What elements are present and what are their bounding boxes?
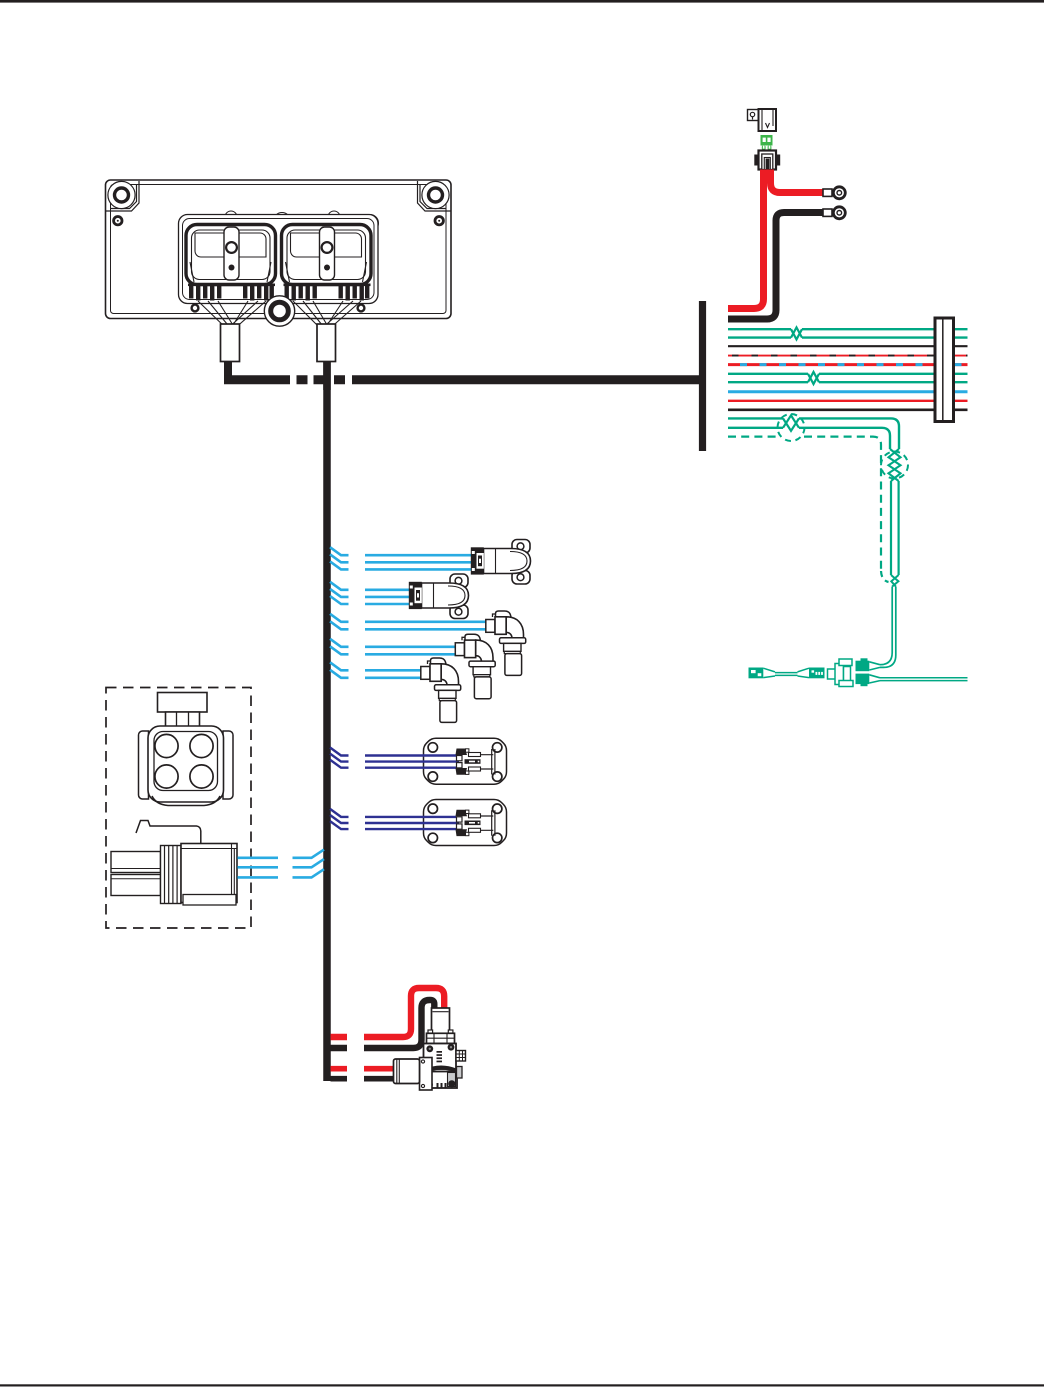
drain wire tail curve	[881, 571, 889, 582]
bullet connector B	[809, 668, 825, 679]
dashed shield circle at vertical twist	[881, 452, 908, 479]
ring terminal (negative)	[823, 207, 845, 219]
teal wire A (shift/trim pair upper)	[728, 418, 899, 449]
4-pin connector face: side wings	[139, 731, 234, 799]
twisted pair vertical run	[891, 481, 899, 575]
wire bundle to sleeve 2	[293, 301, 361, 330]
side-view plug: lock lever	[136, 821, 201, 845]
teal dashed drain wire	[728, 437, 881, 571]
crank position sensor S4 (elbow)	[455, 634, 495, 698]
harness wire 3 (black)	[728, 345, 968, 347]
4-pin connector face: latch tab	[158, 693, 208, 727]
4-pin connector sockets	[155, 734, 213, 788]
fuel pump module: lower housing	[424, 1072, 458, 1089]
teal wire B (pair lower)	[728, 428, 890, 449]
pump sender red wire	[331, 1066, 397, 1072]
block bottom screw right	[358, 305, 365, 312]
accessory harness wires (light blue x3)	[238, 850, 325, 878]
MAP sensor S2	[409, 574, 469, 619]
twisted pair symbol wires A-B	[783, 415, 799, 430]
harness wire 8 (light blue)	[728, 390, 968, 393]
ECM module U1 outline	[106, 180, 452, 319]
harness wire 1 (teal)	[728, 328, 968, 330]
fuse holder lower half	[759, 151, 777, 170]
fuel pump red feed wire	[331, 988, 445, 1037]
battery positive branch to ring	[771, 170, 825, 193]
fuel pump black return wire	[331, 1000, 435, 1048]
injector wires group A (navy x3)	[330, 748, 349, 768]
small screw left	[114, 217, 122, 225]
plate1 center connector	[456, 749, 495, 775]
ECM corner bracket top-right	[418, 181, 451, 211]
harness wire 7 (teal)	[728, 381, 968, 383]
ECM connector block housing	[179, 211, 379, 304]
injector mounting plate 1	[424, 738, 507, 784]
battery negative wire (black)	[728, 213, 824, 320]
jumper lead A to B	[763, 668, 809, 677]
sensor wires group 2 (light blue x3)	[330, 582, 411, 604]
twisted lead from E to right	[880, 678, 968, 681]
ring terminal (positive)	[823, 187, 845, 199]
bulkhead connector P1	[935, 318, 954, 422]
J1 pin row	[188, 284, 275, 301]
plate1 injector leads inside	[365, 756, 459, 768]
fuse holder upper half	[748, 109, 777, 131]
fuel pump module: sender socket	[420, 1058, 433, 1091]
MAP sensor S1	[471, 540, 531, 585]
crank position sensor S5 (elbow)	[421, 658, 461, 722]
ECM mounting screw top-left	[108, 181, 135, 208]
sensor wires group 4 (light blue x2)	[330, 639, 458, 655]
injector mounting plate 2	[424, 800, 507, 846]
harness trunk from sleeve 1	[224, 356, 232, 376]
lower pinch twist	[891, 575, 899, 587]
vertical twist symbol (3 crossings)	[889, 449, 901, 481]
J2 pin row	[284, 284, 371, 301]
side-view plug: housing	[181, 844, 237, 906]
harness wire 6 (teal)	[728, 373, 968, 375]
sleeve 1	[221, 324, 240, 362]
bottom border rule	[0, 1384, 1044, 1386]
optional accessory dashed box	[106, 688, 251, 929]
wire bundle to sleeve 1	[198, 301, 266, 330]
trunk stub below sleeve2	[323, 362, 331, 391]
right distribution bar	[699, 301, 706, 451]
harness wire 5 (red/blue stripe)	[728, 363, 968, 366]
socket connector D (upper)	[856, 658, 870, 671]
ECM connector J2 (right bay)	[282, 225, 372, 301]
harness wire 4 (red/black stripe)	[728, 355, 968, 357]
injector wires group B (navy x3)	[330, 809, 349, 829]
tight pair down to connector	[880, 587, 896, 668]
side-view plug: cable leads	[111, 852, 161, 896]
fuel pump module: valve body	[424, 1044, 457, 1074]
sensor wires group 3 (light blue x2)	[330, 614, 488, 630]
crank position sensor S3 (elbow)	[486, 611, 526, 675]
sensor wires group 5 (light blue x2)	[330, 662, 423, 678]
ECM mounting screw top-right	[422, 181, 449, 208]
plate2 center connector	[456, 810, 495, 836]
battery positive wire (red) main run	[728, 170, 764, 309]
fuel pump module: terminal bracket	[456, 1051, 466, 1079]
fuse F1 (green mini blade)	[761, 135, 773, 150]
plate2 injector leads inside	[365, 817, 459, 829]
twisted pair symbol wires 1-2	[791, 327, 802, 339]
4-pin connector face: body	[148, 726, 224, 806]
harness wire 2 (teal)	[728, 336, 968, 338]
side-view plug: corrugated boot	[161, 846, 182, 904]
sensor wires group 1 (light blue x3)	[330, 547, 473, 569]
funnel into connector D	[869, 662, 880, 670]
fuel pump module: sender plug cylinder	[394, 1059, 420, 1084]
harness trunk from sleeve 2	[323, 356, 331, 1081]
pump sender black wire	[331, 1076, 394, 1082]
twisted pair symbol wires 6-7	[808, 372, 819, 384]
funnel from connector E	[869, 675, 880, 683]
ECM corner bracket top-left	[106, 181, 139, 211]
small screw right	[435, 217, 443, 225]
ECM connector J1 (left bay)	[186, 225, 276, 301]
trunk stub below sleeve1	[224, 362, 232, 381]
fuel pump module: solenoid cylinder	[427, 1008, 455, 1044]
bullet connector A	[749, 668, 764, 679]
sleeve 2	[317, 324, 336, 362]
harness wire 9 (red)	[728, 400, 968, 402]
dashed shield circle at A-B twist	[778, 414, 805, 441]
main horizontal harness line	[224, 375, 702, 384]
block bottom screw left	[192, 305, 199, 312]
socket connector E (lower)	[856, 674, 870, 687]
center grommet circle	[264, 296, 294, 326]
inline coupler body	[828, 659, 854, 687]
harness wire 10 (black)	[728, 408, 968, 411]
top border bar	[0, 0, 1044, 3]
